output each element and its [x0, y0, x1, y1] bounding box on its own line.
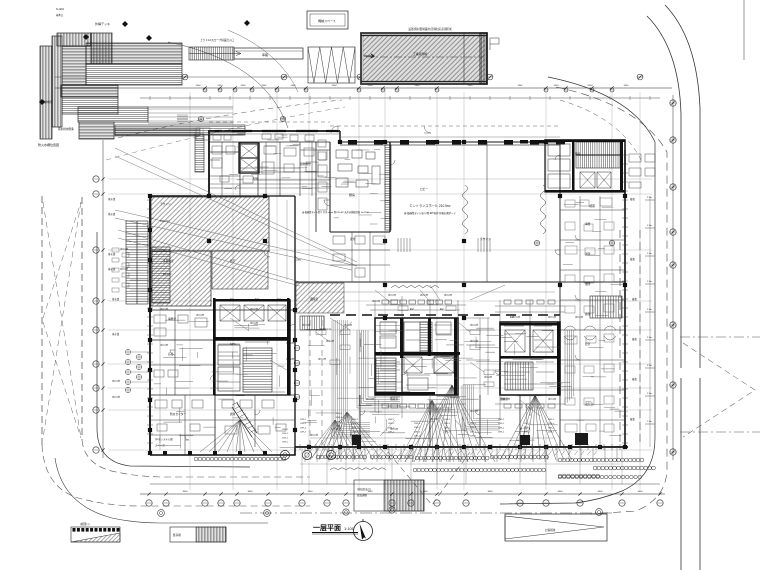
terrace big slab F horizontal stripes	[86, 64, 182, 85]
svg-text:防災センター: 防災センター	[170, 412, 186, 416]
scribble rows kitchen zone	[232, 135, 391, 224]
building outer wall bottom	[295, 446, 628, 448]
interior wall x295 spine	[294, 196, 296, 447]
bottom-left planting strip A	[71, 522, 120, 542]
riser cluster labels tower1	[316, 300, 494, 387]
right rooms inner corridor lines	[580, 196, 600, 447]
interior wall kitchen east	[389, 142, 391, 232]
vestibule small stair x295	[300, 316, 324, 330]
svg-text:ラウンジ: ラウンジ	[160, 202, 171, 206]
svg-text:15FL-1: 15FL-1	[414, 431, 421, 433]
top boundary segment	[55, 76, 360, 78]
svg-text:15FL-1: 15FL-1	[300, 423, 307, 425]
right dimension witness column	[645, 196, 655, 447]
svg-text:植栽: 植栽	[630, 417, 635, 421]
terrace thin band K	[115, 125, 245, 135]
svg-text:15FL-1: 15FL-1	[444, 423, 451, 425]
window mullion ticks bottom wall	[300, 444, 620, 450]
bollard double circles	[280, 450, 335, 459]
scribble rows left wing	[154, 320, 301, 448]
svg-text:15FL-1: 15FL-1	[444, 419, 451, 421]
core walls blackening tower2	[500, 322, 560, 395]
svg-text:階段室: 階段室	[390, 397, 398, 401]
window mullion ticks west wall	[147, 200, 153, 443]
upper-left room fixtures	[212, 146, 318, 174]
central band pipe lines dense	[332, 320, 370, 438]
tree cluster west stems	[131, 352, 150, 382]
hatched lounge room lower	[151, 251, 211, 306]
svg-text:15FL-1: 15FL-1	[336, 413, 343, 415]
left wing partitions dense	[150, 310, 295, 455]
axis bubbles top row minor	[203, 86, 614, 92]
left tower elevator cells	[220, 305, 286, 321]
svg-text:15FL-1: 15FL-1	[352, 427, 359, 429]
tower1 inner fine lines	[380, 322, 452, 385]
black wall chunks top wall near core	[520, 140, 547, 144]
right road inner curb curve	[647, 16, 681, 570]
left wing stair center rail	[136, 221, 138, 304]
escalator diagonal	[232, 402, 257, 437]
svg-text:15FL-1: 15FL-1	[352, 432, 359, 434]
under-building dashed V	[388, 452, 470, 505]
terrace infill block between A and E	[62, 46, 86, 85]
svg-text:15FL-1: 15FL-1	[498, 423, 505, 425]
left wing door arcs	[170, 350, 260, 440]
kitchen fixtures	[336, 150, 380, 187]
extra fan lines tower mid	[398, 400, 468, 462]
svg-text:仮設通路: 仮設通路	[357, 493, 368, 497]
temporary path striped block	[354, 480, 424, 511]
right road outer curb curve	[665, 5, 700, 570]
svg-text:排水溝: 排水溝	[108, 212, 116, 216]
right verge dash-dot upper	[680, 336, 760, 338]
svg-text:排水溝: 排水溝	[112, 332, 120, 336]
building outer wall right	[624, 150, 626, 447]
small grid square terrace	[196, 128, 210, 140]
right core stair room	[545, 140, 625, 192]
tower1 elevator cell A	[404, 357, 422, 373]
svg-text:2.5m: 2.5m	[647, 337, 652, 339]
door arc lower 1	[360, 410, 365, 415]
svg-text:階段: 階段	[575, 152, 581, 156]
window mullion ticks right wall	[622, 155, 628, 443]
survey circle marker 2	[280, 116, 285, 121]
svg-text:倉庫: 倉庫	[585, 312, 591, 316]
terrace big slab E horizontal stripes	[86, 43, 182, 64]
svg-text:15FL-1: 15FL-1	[300, 427, 307, 429]
right wing balcony dashed line 2	[639, 230, 641, 445]
west road bottom dashed curve outer	[42, 445, 310, 506]
svg-text:3600: 3600	[638, 491, 644, 493]
survey circle marker 3	[534, 240, 539, 245]
leader note texts east side	[630, 197, 637, 421]
svg-text:15FL-1: 15FL-1	[282, 433, 289, 435]
tiny corner texts top-left	[56, 8, 65, 17]
drawing title caption	[312, 523, 358, 534]
kitchen west small fixtures	[318, 150, 327, 210]
right rooms west wall	[559, 142, 561, 447]
drainage fan lines tower1 east	[405, 385, 495, 462]
svg-text:2.5m: 2.5m	[647, 225, 652, 227]
survey circle marker 1	[198, 116, 203, 121]
upper-left corridor lines	[209, 184, 330, 188]
svg-text:15FL-1: 15FL-1	[444, 432, 451, 434]
right verge dashed chevron	[683, 343, 755, 437]
below kitchen fixtures	[333, 236, 385, 277]
site outer dashed road west lane 2	[81, 197, 83, 440]
planting diamond marker 4	[39, 99, 45, 105]
dim strings inside plan	[160, 200, 555, 450]
svg-text:15FL-1: 15FL-1	[444, 427, 451, 429]
right dimension line	[672, 95, 674, 460]
bottom dimension figures	[183, 491, 644, 493]
site outer dashed road west lane 1	[41, 196, 43, 445]
svg-text:15FL-1: 15FL-1	[524, 423, 531, 425]
bottom main dimension line	[140, 493, 665, 495]
terrace strip block C vertical stripes	[57, 33, 91, 46]
svg-text:2400: 2400	[368, 85, 374, 87]
svg-text:多目的室: 多目的室	[163, 259, 174, 263]
svg-text:15FL-1: 15FL-1	[470, 431, 477, 433]
far right lane line	[743, 0, 745, 60]
core walls blackening left tower	[213, 298, 290, 395]
west road bottom dashed curve inner	[82, 440, 310, 477]
canopy line above top wall	[209, 122, 560, 126]
small flag right of zone	[490, 38, 499, 50]
building outer wall bottom-left wing	[150, 447, 295, 455]
scribble rows right column rooms	[563, 203, 628, 440]
awning zigzag canopy	[308, 47, 355, 83]
svg-text:15FL-1: 15FL-1	[414, 427, 421, 429]
hall south heavy dashed overhang	[330, 314, 560, 316]
hall south wall	[295, 281, 625, 283]
door arc right room 3	[575, 355, 580, 360]
upper rooms fixtures extra	[213, 134, 326, 183]
svg-text:ロビー: ロビー	[420, 187, 428, 191]
right verge dash-dot lower	[680, 431, 760, 433]
building top step joint	[339, 131, 341, 142]
interior wall kitchen south	[330, 231, 390, 233]
west road dashed diagonal 4	[43, 322, 81, 438]
riser small boxes row tower1	[382, 300, 452, 408]
right mid stair	[590, 296, 622, 318]
building outer wall top-right core	[545, 140, 625, 150]
svg-text:3600: 3600	[488, 491, 494, 493]
vertical service lines under building	[305, 447, 617, 462]
building outer wall west	[149, 196, 151, 455]
svg-text:植栽: 植栽	[630, 197, 635, 201]
entrance approach dashed curve	[118, 100, 342, 138]
site boundary solid north-east curve	[500, 77, 655, 504]
scribble rows central band	[303, 326, 570, 449]
machine space box inner	[310, 14, 345, 26]
svg-text:2.5m: 2.5m	[647, 253, 652, 255]
svg-text:設置(資材置場兼用)苦情対応必須区域: 設置(資材置場兼用)苦情対応必須区域	[408, 27, 452, 31]
svg-text:EV: EV	[440, 307, 444, 311]
terrace slab H horizontal stripes	[62, 97, 118, 114]
kitchen east laddered wall	[385, 145, 391, 230]
svg-text:15FL-1: 15FL-1	[470, 427, 477, 429]
small text tags dense pass	[112, 247, 583, 437]
svg-text:3600: 3600	[183, 491, 189, 493]
left wing fixtures	[154, 315, 286, 434]
svg-text:植栽: 植栽	[632, 377, 637, 381]
culvert arcs bottom right wing	[564, 326, 616, 340]
svg-text:2400: 2400	[241, 85, 247, 87]
bottom tree symbol 5	[389, 507, 395, 513]
lower rooms partition x520	[519, 395, 521, 447]
ramp inner line	[234, 50, 303, 52]
right rooms partitions	[560, 210, 625, 420]
left dimension line	[102, 140, 104, 458]
tiny label stacks under towers	[282, 413, 555, 444]
building wall west upper link	[150, 195, 209, 197]
svg-text:お客様用: お客様用	[545, 528, 556, 532]
hall steps marks	[398, 238, 490, 252]
terrace long band I horizontal stripes	[78, 107, 148, 122]
door arc lower 2	[475, 410, 480, 415]
drainage fan lines tower2	[500, 395, 572, 460]
hall scallop cloud lower	[330, 468, 386, 470]
svg-text:15FL-1: 15FL-1	[352, 423, 359, 425]
bottom-left planting strip B	[170, 527, 226, 542]
svg-text:厨房前室: 厨房前室	[300, 162, 311, 166]
svg-text:15FL-1: 15FL-1	[548, 432, 555, 434]
svg-text:排水溝: 排水溝	[108, 197, 116, 201]
tower2 core heavy walls	[500, 322, 560, 395]
door arc right room 2	[575, 295, 580, 300]
svg-text:15FL-1: 15FL-1	[352, 419, 359, 421]
svg-text:15FL-1: 15FL-1	[282, 437, 289, 439]
corridor x295-330 dashed lines	[310, 320, 322, 445]
extra fan left of tower1	[305, 420, 361, 458]
shrub garland row left	[194, 457, 286, 461]
planting diamond marker 3	[244, 20, 250, 26]
svg-text:15FL-1: 15FL-1	[388, 432, 395, 434]
axis bubbles bottom row	[146, 492, 663, 506]
svg-text:2400: 2400	[554, 85, 560, 87]
svg-text:15FL-1: 15FL-1	[282, 442, 289, 444]
svg-text:ラウンジ: ラウンジ	[480, 237, 491, 241]
axis bubbles left column	[93, 176, 105, 453]
tower1 surround detail lines	[366, 296, 495, 418]
terrace strip block D vertical stripes	[91, 33, 112, 64]
upper core stair	[195, 134, 204, 172]
entrance stair arrow	[189, 53, 240, 55]
nested pipe runs tower2 east	[565, 330, 574, 405]
construction zone hatched rectangle	[361, 33, 487, 84]
bottom tree symbol 2	[264, 510, 271, 517]
svg-text:15FL-1: 15FL-1	[548, 423, 555, 425]
entrance stair treads	[189, 47, 234, 60]
svg-text:15FL-1: 15FL-1	[524, 427, 531, 429]
top band tick marks	[150, 96, 650, 100]
svg-text:2.5m: 2.5m	[647, 197, 652, 199]
door arc hall entry 2	[424, 126, 431, 133]
survey circle marker 4	[609, 240, 614, 245]
entrance ramp long rectangle	[234, 48, 303, 59]
tower1 stair treads A	[376, 358, 396, 392]
svg-text:2400: 2400	[518, 85, 524, 87]
tower1 elevator cell B	[434, 357, 454, 373]
inner dashed arc top-right	[560, 100, 641, 160]
left leader lines to building	[130, 250, 150, 290]
svg-text:配膳: 配膳	[253, 177, 259, 181]
svg-text:外構デッキ: 外構デッキ	[95, 21, 110, 26]
tower1 core heavy walls	[375, 318, 458, 395]
svg-text:排水溝: 排水溝	[112, 297, 120, 301]
top dimension figures	[196, 85, 630, 87]
right core darkening	[545, 140, 625, 192]
construction zone centerline arrow	[364, 54, 374, 58]
tower2 inner fine lines	[504, 326, 554, 384]
left tower stair treads	[243, 348, 272, 392]
north arrow	[354, 519, 373, 541]
bottom tree symbol 1	[158, 510, 165, 517]
left tower small cells	[218, 345, 240, 391]
svg-text:15FL-1: 15FL-1	[498, 419, 505, 421]
hatched corridor diagonal	[212, 251, 268, 289]
core walls blackening tower1	[375, 318, 460, 395]
lower rooms partition x430	[429, 400, 431, 447]
upper-left rooms scribbles extra	[224, 133, 335, 188]
terrace long thin extension lines	[148, 107, 233, 123]
interior wall upper-left rooms south	[209, 195, 295, 197]
svg-text:15FL-1: 15FL-1	[300, 432, 307, 434]
svg-text:植栽: 植栽	[632, 337, 637, 341]
wall y340 left rooms	[150, 339, 215, 341]
kitchen extra west partition	[315, 142, 317, 232]
upper rooms partition x258	[257, 142, 259, 196]
svg-text:15FL-1: 15FL-1	[300, 419, 307, 421]
right rooms fixtures dense	[565, 198, 614, 432]
svg-text:植栽: 植栽	[630, 257, 635, 261]
upper band wall y142 left	[209, 141, 330, 143]
construction zone right end cap	[480, 33, 487, 84]
svg-text:エントランスホール 210.5m²: エントランスホール 210.5m²	[409, 203, 450, 208]
terrace guide arc 2	[228, 30, 298, 92]
svg-text:15FL-1: 15FL-1	[336, 426, 343, 428]
left tower lower core walls	[215, 340, 290, 395]
hatched small pantry	[296, 283, 344, 313]
svg-text:2400: 2400	[624, 85, 630, 87]
svg-text:2400: 2400	[588, 85, 594, 87]
svg-text:工事境界線: 工事境界線	[413, 52, 427, 56]
second shrub row lower partial	[558, 475, 641, 479]
tiny stair marks left of grid	[177, 115, 188, 121]
top secondary dimension line	[140, 97, 660, 99]
svg-text:床:磁器質タイル张り/壁:EP/天井:化粧石膏ボード: 床:磁器質タイル张り/壁:EP/天井:化粧石膏ボード	[404, 211, 457, 215]
svg-text:車路: 車路	[262, 52, 268, 57]
entrance approach dashed curve 2	[106, 107, 345, 160]
svg-text:2400: 2400	[218, 85, 224, 87]
svg-text:喫茶: 喫茶	[589, 203, 595, 208]
door arc lounge	[264, 251, 270, 257]
bottom property dash-dot line	[240, 512, 615, 514]
wall x215 left rooms	[214, 310, 216, 455]
svg-text:15FL-1: 15FL-1	[388, 419, 395, 421]
upper rooms partition x280	[279, 142, 281, 196]
svg-text:15FL-1: 15FL-1	[470, 423, 477, 425]
left tower inner fine lines	[218, 342, 285, 392]
tree cluster west	[125, 349, 141, 392]
inner axis bubbles column x297	[294, 345, 299, 399]
left tower elevator bank walls	[215, 300, 290, 340]
below kitchen partitions	[330, 232, 390, 282]
svg-text:上り 1:12スロープ併設出入口: 上り 1:12スロープ併設出入口	[200, 38, 235, 42]
shrub tick marks band	[334, 451, 597, 455]
tower2 elevator cell B	[533, 330, 553, 352]
canopy thin line above top wall	[340, 136, 560, 138]
axis bubbles top row main	[182, 74, 643, 80]
top main dimension line	[55, 87, 672, 89]
svg-text:排水溝: 排水溝	[108, 252, 116, 256]
lower rooms partition x360	[359, 395, 361, 447]
west road dashed diagonal 3	[43, 202, 81, 318]
nested pipe runs tower1 west	[357, 330, 400, 408]
terrace slab J horizontal stripes	[79, 122, 114, 139]
svg-text:2400: 2400	[196, 85, 202, 87]
svg-text:15FL-1: 15FL-1	[388, 423, 395, 425]
svg-text:15FL-1: 15FL-1	[282, 429, 289, 431]
svg-text:15FL-1: 15FL-1	[498, 427, 505, 429]
tower2 surround detail lines	[495, 300, 565, 420]
machine space box outer	[307, 11, 348, 29]
bottom tree symbol 3	[596, 509, 603, 516]
svg-text:15FL-1: 15FL-1	[498, 432, 505, 434]
hatched lounge room big	[151, 197, 269, 251]
lower rooms partition x480	[479, 395, 481, 447]
structural columns grid	[148, 140, 627, 455]
svg-text:緑地帯: 緑地帯	[44, 100, 53, 104]
door arcs extra set	[235, 155, 560, 375]
leader note texts west side	[108, 197, 120, 336]
axis bubbles right column	[670, 100, 676, 455]
right wing balcony dashed line 1	[619, 230, 621, 445]
terrace guide arc	[168, 42, 288, 128]
svg-text:3600: 3600	[308, 491, 314, 493]
svg-text:厨房: 厨房	[349, 192, 355, 197]
svg-text:(高低差あり): (高低差あり)	[357, 487, 371, 491]
central band pipe lines dense east	[462, 385, 500, 430]
bottom tree symbol 4	[343, 509, 349, 515]
site access curve bottom-left	[55, 458, 268, 523]
svg-text:基準点: 基準点	[56, 13, 64, 17]
svg-text:2.5m: 2.5m	[647, 421, 652, 423]
svg-text:倉庫: 倉庫	[230, 412, 236, 416]
building outer wall top-left wing	[209, 131, 340, 196]
svg-text:N-1234: N-1234	[56, 8, 65, 11]
witness lines to bottom dimension	[302, 447, 622, 484]
stair hatch block west wall inside	[152, 247, 170, 303]
upper rooms partition x300	[299, 142, 301, 196]
svg-text:雨水排水側溝: 雨水排水側溝	[58, 127, 74, 131]
small leader lines cluster	[316, 290, 484, 372]
ground drain channel line	[300, 463, 620, 465]
planting diamond marker 1	[83, 34, 89, 40]
svg-text:風除室: 風除室	[310, 297, 318, 301]
svg-text:15FL-1: 15FL-1	[388, 427, 395, 429]
terrace underline band dense	[115, 128, 200, 136]
hall curtain wavy column 2	[540, 185, 545, 234]
drainage fan lines left tower	[200, 420, 272, 452]
svg-text:2400: 2400	[332, 85, 338, 87]
svg-text:15FL-1: 15FL-1	[414, 436, 421, 438]
door arc hall entry 1	[331, 126, 338, 133]
vertical grid lines	[190, 92, 640, 490]
svg-text:3600: 3600	[598, 491, 604, 493]
tower1 vestibule	[404, 322, 428, 352]
